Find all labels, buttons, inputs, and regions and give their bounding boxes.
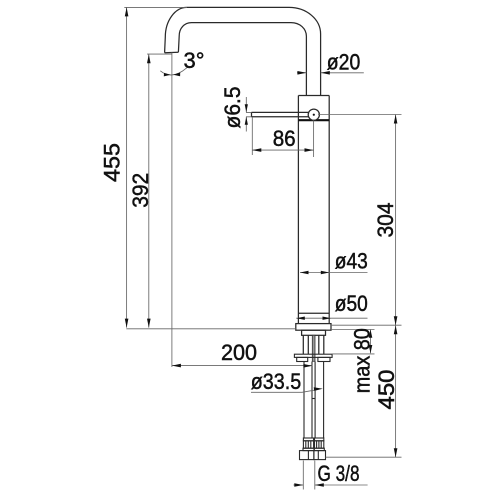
base flange [296,324,331,331]
body top [298,95,329,97]
svg-text:392: 392 [128,173,153,208]
body right edge [328,96,330,324]
flex hose left [304,362,312,439]
spout tube inner profile [192,23,307,96]
dia20 arrows [297,71,306,75]
450 arrows [394,325,398,334]
dia33.5 leader [251,389,319,392]
dia43 dimension line with tail [300,272,368,274]
G3/8 arrows [294,483,303,487]
shank outer walls [303,335,324,354]
dia20 dimension line left [297,72,306,74]
mounting nut right half [318,357,330,361]
svg-text:ø43: ø43 [335,249,368,274]
304 dimension line [395,115,397,326]
200 arrows [172,364,181,368]
pivot center dot [313,114,315,116]
hose shoulder right [314,448,324,450]
connection nut left [300,451,314,460]
mounting washer plate [294,354,332,357]
shank inner hose walls [308,335,319,354]
450 dimension line [395,325,397,457]
svg-text:200: 200 [221,340,257,365]
392 dimension line [148,54,150,327]
svg-text:3°: 3° [184,48,205,73]
body left edge [297,96,299,324]
hose shoulder left [303,448,314,450]
spout tube outer left bend [165,7,187,52]
86 arrows [252,148,261,152]
svg-text:ø6.5: ø6.5 [220,87,245,129]
hose ribbed section right [315,441,324,448]
lever joint thick band [298,119,329,121]
svg-text:ø20: ø20 [327,50,361,75]
flange top extension line [331,324,402,326]
svg-text:455: 455 [100,143,125,182]
3deg arc arrows [164,73,171,77]
455 arrows [125,7,129,16]
dia50 dimension line with tail [296,317,367,319]
86 left extension [251,118,253,156]
392 arrows [147,54,151,63]
dia50 arrows [296,317,305,320]
spout centerline [171,53,173,368]
80 dimension line [370,330,372,354]
svg-text:450: 450 [374,370,399,410]
hose ribbed section left [303,441,313,448]
dia6.5 arrows [245,104,248,112]
G3/8 dimension lines [293,484,367,486]
dia33.5 leader arrow [314,387,323,391]
threaded stud [312,335,315,361]
mounting collar [302,330,326,335]
hose collar right [315,438,324,441]
86 dimension line [252,149,313,151]
spout outlet [165,51,179,54]
pivot circle [308,109,319,120]
lever bar [252,112,314,116]
spout tube outer profile [187,7,321,95]
392 outlet extension line [147,53,172,55]
80 arrows [369,330,373,338]
washer top extension line [332,353,374,355]
flange bottom extension line [331,329,375,331]
455 top extension line [124,6,187,8]
86 right extension (pivot centerline) [313,120,315,157]
base cap joint line [299,312,329,314]
dia20 dimension line right with tail [321,72,364,74]
svg-text:G 3/8: G 3/8 [318,461,360,486]
dia43 arrows [300,271,309,274]
304 arrows [394,115,398,124]
200 dimension line [172,365,313,367]
dia6.5 extension lines [246,112,252,116]
svg-text:304: 304 [373,203,398,238]
connection nut right [314,451,326,460]
3-degree arc [160,68,187,75]
svg-text:max 80: max 80 [350,328,375,393]
counter reference line [126,328,295,330]
455 dimension line [126,7,128,327]
pivot level extension line [318,114,402,116]
svg-text:ø50: ø50 [335,291,368,316]
svg-text:ø33.5: ø33.5 [251,369,302,394]
flex hose right [315,362,324,439]
spout tube inner left bend [178,23,191,53]
svg-text:86: 86 [273,126,296,151]
mounting nut left half [297,357,308,361]
hose collar left [303,438,313,441]
G3/8 extension lines [303,461,315,490]
450 bottom extension line [326,456,402,458]
hose clip [312,398,315,400]
dia6.5 dimension line [245,97,247,132]
